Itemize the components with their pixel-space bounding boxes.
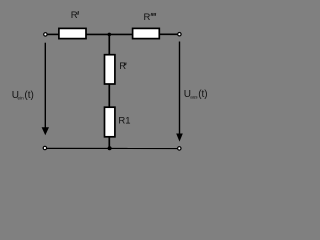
svg-text:aus: aus — [190, 95, 198, 100]
resistor R'' — [105, 55, 115, 84]
label U_aus(t) — [184, 89, 208, 100]
svg-text:(t): (t) — [24, 90, 33, 101]
terminal: bottom-left (open circle) — [43, 146, 46, 149]
terminal: top-right output (open circle) — [178, 33, 181, 36]
junction node at bottom of middle branch — [108, 146, 112, 150]
resistor R1 — [105, 107, 115, 137]
svg-text:R: R — [71, 10, 78, 21]
voltage arrow U_aus head — [176, 134, 183, 142]
label R' — [71, 10, 79, 21]
label U_ein(t) — [12, 90, 34, 101]
svg-text:R: R — [144, 12, 151, 23]
wire: middle branch from top junction down to R'' — [108, 34, 110, 55]
label R'''' — [144, 12, 156, 23]
voltage arrow U_ein head — [42, 127, 49, 135]
junction node at top of middle branch — [108, 33, 112, 37]
wire: top-left lead from input terminal to R' — [47, 33, 60, 35]
resistor R'''' — [133, 28, 160, 38]
terminal: bottom-right (open circle) — [178, 147, 181, 150]
svg-text:ein: ein — [18, 95, 25, 100]
svg-text:R: R — [119, 61, 126, 72]
wire: bottom return from input terminal to output terminal — [47, 147, 178, 149]
svg-text:(t): (t) — [198, 89, 207, 100]
voltage arrow U_aus stem — [179, 42, 181, 135]
resistor R' — [59, 28, 86, 38]
label R'' — [119, 61, 126, 72]
wire: from R' to R''' through top junction — [86, 33, 133, 35]
voltage arrow U_ein stem — [44, 43, 46, 129]
wire: from R1 down to bottom junction — [108, 137, 110, 148]
wire: from R'''' to output terminal — [159, 33, 177, 35]
svg-text:R1: R1 — [118, 116, 130, 127]
terminal: top-left input (open circle) — [44, 33, 47, 36]
wire: between R'' and R1 — [108, 84, 110, 108]
